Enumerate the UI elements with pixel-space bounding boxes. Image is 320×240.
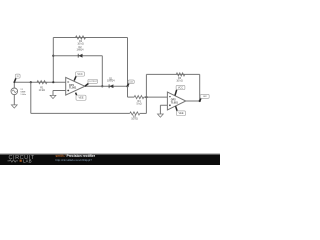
svg-text:LAB: LAB — [23, 158, 32, 163]
node A vertical wire (inverting input riser) — [52, 38, 54, 83]
power flag VEE of OP1 — [76, 93, 86, 101]
wire OP2 non-inverting input to ground — [160, 105, 167, 114]
svg-text:TL081: TL081 — [69, 87, 77, 90]
ground below V1 — [11, 105, 17, 108]
svg-text:5 kΩ: 5 kΩ — [137, 103, 142, 106]
wire bottom rail input to R5 — [31, 82, 130, 113]
junction summing node — [145, 96, 147, 98]
junction OP2 output / feedback — [199, 100, 201, 102]
wire R2 loop right vertical — [127, 38, 129, 87]
ground at OP2 non-inverting input — [158, 114, 164, 117]
svg-text:10 kΩ: 10 kΩ — [176, 79, 183, 82]
svg-text:1N914: 1N914 — [107, 80, 115, 83]
op-amp OP1 — [66, 77, 85, 95]
footer credit text — [56, 154, 96, 162]
wire V1 top lead — [13, 82, 15, 88]
ground at OP1 non-inverting input — [50, 95, 56, 98]
power flag VEE of OP2 — [176, 106, 186, 116]
wire OP1 non-inverting input to ground — [53, 91, 66, 96]
svg-text:VEE: VEE — [178, 112, 183, 115]
node flag IN at source top — [14, 74, 20, 82]
wire R5 riser to summing node — [140, 97, 147, 113]
svg-text:VCC: VCC — [178, 86, 183, 89]
CircuitLab logo — [8, 155, 35, 164]
footer watermark bar — [0, 153, 220, 165]
svg-text:OUTPUT: OUTPUT — [88, 81, 97, 83]
wire D2 loop horizontal — [53, 55, 102, 57]
op-amp OP2 — [167, 92, 185, 110]
wire D2 loop right vertical — [101, 56, 103, 87]
diode D1 — [107, 77, 115, 88]
voltage source V1 — [11, 88, 26, 96]
wire R6 loop right vertical — [199, 74, 201, 101]
junction at V1 top / flag anchor — [13, 81, 15, 83]
junction node A / input wire — [52, 81, 54, 83]
power flag VCC of OP1 — [74, 72, 84, 81]
svg-text:http://circuitlab.com/c/23qq27: http://circuitlab.com/c/23qq27 — [56, 158, 93, 162]
svg-text:10 kΩ: 10 kΩ — [39, 89, 46, 92]
node flag at stage-1 output — [128, 80, 135, 86]
resistor R5 — [130, 112, 140, 121]
wire OP1 output — [85, 85, 128, 87]
svg-text:1 kHz: 1 kHz — [20, 94, 26, 96]
resistor R2 — [76, 36, 86, 45]
wire V1 bottom lead — [13, 95, 15, 105]
wire R4 to summing node — [144, 96, 168, 98]
junction node A / D2 branch — [52, 55, 54, 57]
junction stage-1 output node — [126, 85, 128, 87]
junction node input/bottom-rail branch — [30, 81, 32, 83]
wire input net from V1 to OP1 inverting input — [14, 81, 65, 83]
wire OP2 output — [186, 100, 200, 102]
node flag at OP1 output — [85, 79, 98, 86]
svg-text:TL081: TL081 — [171, 101, 179, 104]
svg-text:10 kΩ: 10 kΩ — [131, 118, 138, 121]
resistor R6 — [176, 73, 184, 83]
svg-text:VEE: VEE — [78, 97, 83, 100]
wire feedback top (R2 loop) — [53, 37, 127, 39]
wire R6 loop left vertical — [145, 74, 147, 97]
wire R6 loop top — [146, 73, 199, 75]
svg-text:10 kΩ: 10 kΩ — [77, 42, 84, 45]
resistor R1 — [37, 81, 47, 92]
resistor R4 — [134, 96, 144, 106]
power flag VCC of OP2 — [175, 85, 185, 95]
node flag OUT at OP2 output — [200, 94, 210, 101]
wire stage-1 output down to R4 level — [128, 86, 135, 97]
svg-text:out: out — [203, 95, 207, 98]
svg-text:1N914: 1N914 — [76, 49, 84, 52]
junction D2 loop / OP1 output — [101, 85, 103, 87]
diode D2 — [76, 46, 84, 58]
svg-text:VCC: VCC — [77, 73, 82, 76]
